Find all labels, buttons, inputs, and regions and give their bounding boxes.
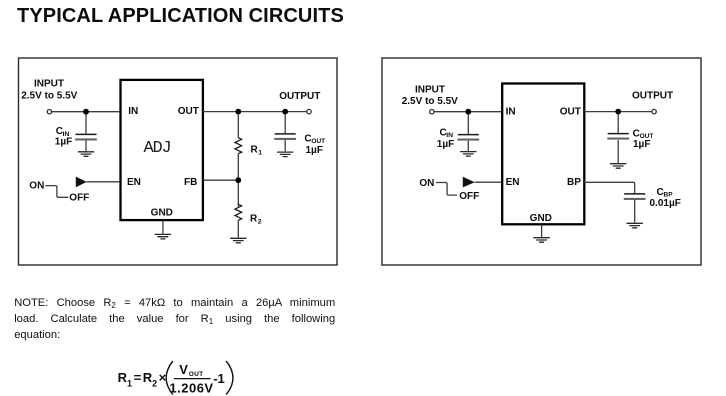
svg-text:OFF: OFF xyxy=(69,192,89,203)
svg-text:1: 1 xyxy=(258,150,262,157)
svg-text:1µF: 1µF xyxy=(306,145,323,156)
svg-text:OUTPUT: OUTPUT xyxy=(632,90,673,101)
svg-text:1µF: 1µF xyxy=(633,139,650,150)
svg-text:1.206V: 1.206V xyxy=(169,380,213,395)
svg-text:V: V xyxy=(179,362,188,377)
svg-text:GND: GND xyxy=(530,213,552,224)
svg-text:OUT: OUT xyxy=(178,106,199,117)
svg-text:IN: IN xyxy=(506,107,516,118)
svg-text:ON: ON xyxy=(419,178,434,189)
svg-text:INPUT: INPUT xyxy=(34,79,64,90)
svg-text:OUT: OUT xyxy=(560,107,581,118)
svg-text:INPUT: INPUT xyxy=(415,84,445,95)
svg-text:ON: ON xyxy=(29,181,44,192)
svg-text:×: × xyxy=(159,370,167,385)
svg-text:1µF: 1µF xyxy=(55,136,72,147)
svg-text:ADJ: ADJ xyxy=(143,139,170,158)
svg-text:-1: -1 xyxy=(213,371,225,386)
svg-text:2.5V to 5.5V: 2.5V to 5.5V xyxy=(21,91,77,102)
svg-text:IN: IN xyxy=(128,106,138,117)
svg-text:FB: FB xyxy=(184,177,197,188)
svg-text:1µF: 1µF xyxy=(437,139,454,150)
svg-text:BP: BP xyxy=(567,177,581,188)
svg-text:0.01µF: 0.01µF xyxy=(650,198,681,209)
svg-text:OFF: OFF xyxy=(459,191,479,202)
svg-text:2: 2 xyxy=(152,379,157,389)
svg-text:EN: EN xyxy=(506,177,520,188)
svg-text:2.5V to 5.5V: 2.5V to 5.5V xyxy=(402,96,458,107)
svg-text:=: = xyxy=(134,370,142,385)
svg-text:GND: GND xyxy=(151,208,173,219)
svg-text:EN: EN xyxy=(127,177,141,188)
svg-text:2: 2 xyxy=(258,218,262,225)
svg-text:1: 1 xyxy=(127,379,132,389)
svg-text:OUT: OUT xyxy=(189,371,204,378)
svg-text:OUTPUT: OUTPUT xyxy=(279,91,320,102)
